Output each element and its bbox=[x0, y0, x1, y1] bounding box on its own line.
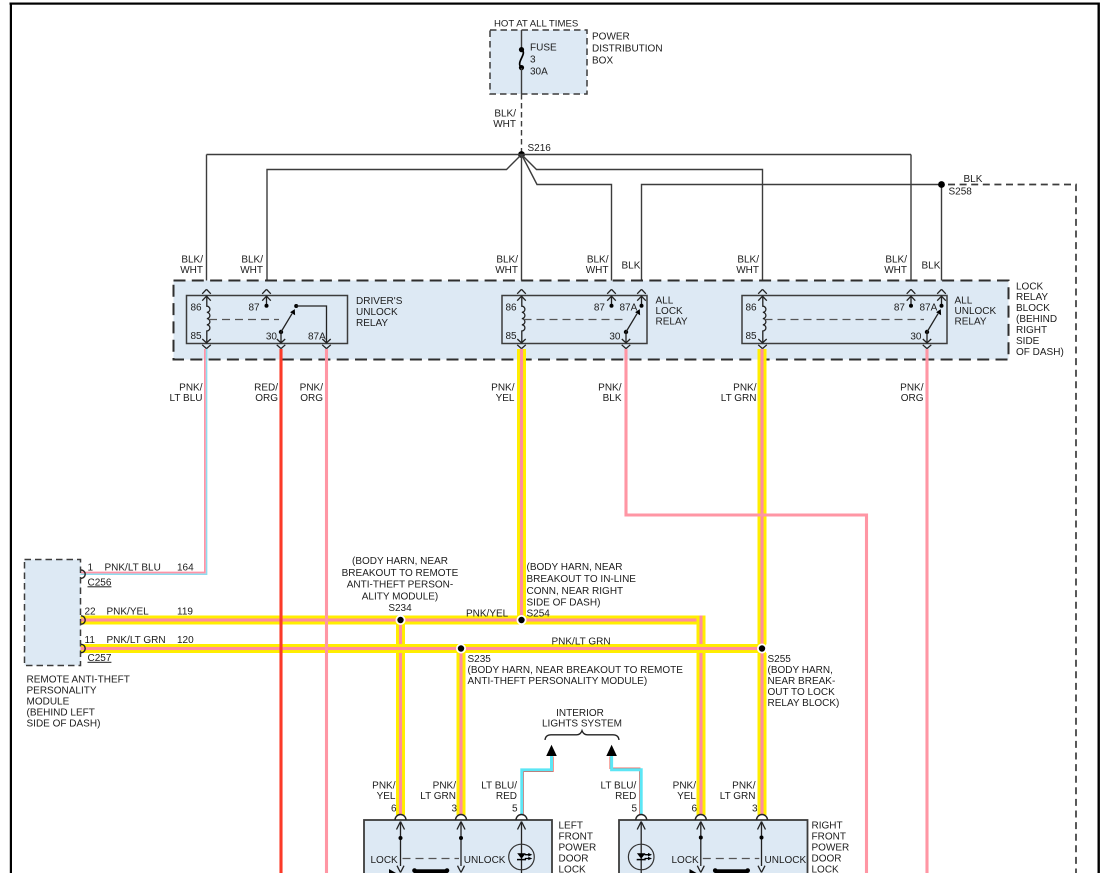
svg-text:30: 30 bbox=[910, 332, 922, 343]
svg-text:HOT AT ALL TIMES: HOT AT ALL TIMES bbox=[494, 19, 578, 30]
splice S258 bbox=[938, 181, 972, 197]
svg-text:S216: S216 bbox=[528, 143, 552, 154]
svg-text:ALITY MODULE): ALITY MODULE) bbox=[362, 591, 439, 602]
wire PNK/ORG left bbox=[325, 349, 328, 873]
svg-text:RIGHT: RIGHT bbox=[812, 821, 843, 832]
fuse F3 30A bbox=[519, 30, 557, 94]
pin 5 line bbox=[518, 822, 526, 830]
svg-text:POWER: POWER bbox=[559, 843, 597, 854]
splice S216 bbox=[518, 143, 551, 158]
right front power door lock bbox=[619, 815, 849, 873]
svg-text:PNK/: PNK/ bbox=[598, 382, 622, 393]
svg-text:5: 5 bbox=[631, 803, 637, 814]
connector arcs bbox=[636, 815, 647, 821]
connector pin 22 bbox=[81, 616, 85, 624]
LED lamp right bbox=[628, 844, 654, 870]
svg-text:1: 1 bbox=[88, 562, 94, 573]
svg-text:ORG: ORG bbox=[255, 393, 278, 404]
svg-text:86: 86 bbox=[191, 303, 203, 314]
svg-text:LIGHTS SYSTEM: LIGHTS SYSTEM bbox=[542, 719, 622, 730]
wire BLK/WHT to all lock 86 bbox=[521, 155, 523, 296]
svg-text:BLK/: BLK/ bbox=[241, 254, 263, 265]
svg-text:BLK/: BLK/ bbox=[494, 109, 516, 120]
svg-text:ORG: ORG bbox=[901, 393, 924, 404]
svg-text:BLK: BLK bbox=[603, 393, 622, 404]
coil K2 bbox=[522, 296, 525, 344]
svg-text:LT GRN: LT GRN bbox=[720, 791, 756, 802]
svg-text:WHT: WHT bbox=[736, 265, 759, 276]
LED lamp left bbox=[509, 844, 535, 870]
svg-text:86: 86 bbox=[746, 303, 758, 314]
svg-text:C256: C256 bbox=[88, 577, 112, 588]
wire to driver relay 86 bbox=[206, 155, 208, 296]
svg-text:FRONT: FRONT bbox=[812, 832, 846, 843]
svg-text:RED: RED bbox=[496, 791, 517, 802]
connector pin 11 bbox=[81, 644, 85, 652]
svg-text:BLK/: BLK/ bbox=[181, 254, 203, 265]
svg-text:LT BLU/: LT BLU/ bbox=[601, 780, 637, 791]
wire PNK/YEL drop to left door pin 6 bbox=[396, 620, 405, 815]
svg-text:RED: RED bbox=[615, 791, 636, 802]
svg-text:PNK/: PNK/ bbox=[733, 382, 757, 393]
svg-text:PNK/: PNK/ bbox=[732, 780, 756, 791]
svg-text:BREAKOUT TO IN-LINE: BREAKOUT TO IN-LINE bbox=[527, 574, 637, 585]
pin 5 line bbox=[637, 822, 645, 830]
svg-text:ALL: ALL bbox=[955, 296, 973, 307]
svg-text:6: 6 bbox=[391, 803, 397, 814]
svg-text:DOOR: DOOR bbox=[559, 854, 589, 865]
svg-text:87: 87 bbox=[894, 303, 906, 314]
svg-text:S234: S234 bbox=[388, 603, 412, 614]
svg-text:WHT: WHT bbox=[180, 265, 203, 276]
svg-text:PNK/YEL: PNK/YEL bbox=[466, 609, 509, 620]
svg-text:5: 5 bbox=[512, 803, 518, 814]
wire BLK 87A net bbox=[642, 174, 1077, 873]
svg-text:PNK/: PNK/ bbox=[372, 780, 396, 791]
svg-text:BLK/: BLK/ bbox=[737, 254, 759, 265]
pin 6 line bbox=[697, 822, 705, 830]
svg-text:3: 3 bbox=[530, 55, 536, 66]
wire BLK/WHT bus top bbox=[207, 155, 912, 296]
power distribution box bbox=[490, 19, 663, 95]
svg-text:86: 86 bbox=[506, 303, 518, 314]
splice S234 bbox=[342, 556, 459, 625]
svg-text:RELAY: RELAY bbox=[1016, 292, 1048, 303]
relay K2 all lock relay bbox=[502, 289, 688, 348]
svg-text:YEL: YEL bbox=[677, 791, 696, 802]
svg-text:30: 30 bbox=[609, 332, 621, 343]
svg-text:WHT: WHT bbox=[493, 119, 516, 130]
actuator fragments bottom bbox=[715, 869, 749, 873]
svg-text:87: 87 bbox=[594, 303, 606, 314]
svg-text:BREAKOUT TO REMOTE: BREAKOUT TO REMOTE bbox=[342, 568, 459, 579]
wire PNK/LT GRN bus horizontal bbox=[81, 349, 767, 815]
wire PNK/LT BLU bbox=[81, 349, 207, 574]
border right bbox=[1098, 3, 1100, 873]
svg-text:3: 3 bbox=[752, 803, 758, 814]
svg-text:WHT: WHT bbox=[240, 265, 263, 276]
svg-text:120: 120 bbox=[177, 635, 194, 646]
svg-text:UNLOCK: UNLOCK bbox=[955, 306, 997, 317]
svg-text:LT BLU/: LT BLU/ bbox=[481, 780, 517, 791]
brace bbox=[545, 731, 619, 740]
actuator fragments bottom bbox=[414, 869, 448, 873]
border top bbox=[10, 3, 1100, 5]
svg-text:RELAY: RELAY bbox=[356, 318, 388, 329]
svg-text:RED/: RED/ bbox=[254, 382, 278, 393]
svg-text:PNK/LT BLU: PNK/LT BLU bbox=[105, 562, 161, 573]
svg-text:PNK/YEL: PNK/YEL bbox=[107, 606, 150, 617]
wire to all unlock relay 87 bbox=[910, 155, 912, 296]
svg-text:PNK/: PNK/ bbox=[179, 382, 203, 393]
svg-text:PNK/LT GRN: PNK/LT GRN bbox=[107, 635, 166, 646]
dashed relay separator bbox=[209, 319, 279, 321]
svg-text:FRONT: FRONT bbox=[559, 832, 593, 843]
svg-text:RELAY: RELAY bbox=[955, 317, 987, 328]
arrow to interior lights right bbox=[606, 745, 617, 756]
svg-text:S255: S255 bbox=[768, 654, 792, 665]
svg-text:PNK/: PNK/ bbox=[673, 780, 697, 791]
svg-text:POWER: POWER bbox=[812, 843, 850, 854]
svg-text:LOCK: LOCK bbox=[1016, 281, 1044, 292]
svg-text:LT GRN: LT GRN bbox=[721, 393, 757, 404]
coil K3 bbox=[763, 296, 766, 344]
svg-text:RELAY: RELAY bbox=[656, 317, 688, 328]
svg-text:164: 164 bbox=[177, 562, 194, 573]
svg-text:85: 85 bbox=[191, 331, 203, 342]
module C256/C257 remote anti-theft personality module bbox=[25, 560, 195, 730]
svg-text:BLK/: BLK/ bbox=[885, 254, 907, 265]
arrow to interior lights left bbox=[546, 745, 557, 756]
pin 87A elbow bbox=[294, 304, 298, 308]
left front power door lock bbox=[364, 815, 596, 873]
wire PNK/YEL bus horizontal bbox=[81, 349, 706, 815]
svg-text:DOOR: DOOR bbox=[812, 854, 842, 865]
svg-text:BLK: BLK bbox=[922, 261, 941, 272]
svg-text:C257: C257 bbox=[88, 653, 112, 664]
svg-text:UNLOCK: UNLOCK bbox=[765, 855, 807, 866]
svg-text:ANTI-THEFT PERSONALITY MODULE): ANTI-THEFT PERSONALITY MODULE) bbox=[468, 676, 648, 687]
wire BLK/WHT fuse to S216 (dashed) bbox=[493, 94, 521, 154]
svg-text:(BEHIND: (BEHIND bbox=[1016, 314, 1057, 325]
dashed relay separator bbox=[765, 319, 925, 321]
svg-text:CONN, NEAR RIGHT: CONN, NEAR RIGHT bbox=[527, 586, 624, 597]
svg-text:BLK/: BLK/ bbox=[587, 254, 609, 265]
coil K1 bbox=[207, 296, 210, 344]
svg-text:BLK: BLK bbox=[622, 261, 641, 272]
svg-text:LT GRN: LT GRN bbox=[420, 791, 456, 802]
svg-text:RIGHT: RIGHT bbox=[1016, 325, 1047, 336]
wire RED/ORG bbox=[279, 349, 282, 873]
svg-text:BLOCK: BLOCK bbox=[1016, 303, 1050, 314]
svg-text:DISTRIBUTION: DISTRIBUTION bbox=[592, 44, 663, 55]
svg-text:S254: S254 bbox=[527, 609, 551, 620]
svg-text:85: 85 bbox=[746, 331, 758, 342]
svg-text:LT BLU: LT BLU bbox=[170, 393, 203, 404]
svg-text:(BODY HARN, NEAR BREAKOUT TO R: (BODY HARN, NEAR BREAKOUT TO REMOTE bbox=[468, 665, 684, 676]
svg-text:DRIVER'S: DRIVER'S bbox=[356, 296, 403, 307]
svg-text:22: 22 bbox=[85, 606, 97, 617]
wire BLK/WHT bus mid bbox=[267, 155, 763, 296]
svg-text:85: 85 bbox=[506, 331, 518, 342]
svg-text:INTERIOR: INTERIOR bbox=[556, 708, 604, 719]
svg-text:(BODY HARN, NEAR: (BODY HARN, NEAR bbox=[527, 562, 623, 573]
svg-text:6: 6 bbox=[691, 803, 697, 814]
svg-text:87: 87 bbox=[249, 303, 261, 314]
svg-text:UNLOCK: UNLOCK bbox=[464, 855, 506, 866]
svg-text:ORG: ORG bbox=[300, 393, 323, 404]
pin 6 line bbox=[397, 822, 405, 830]
svg-text:MODULE: MODULE bbox=[27, 696, 70, 707]
svg-text:87A: 87A bbox=[620, 303, 638, 314]
connector pin 1 bbox=[81, 570, 85, 578]
wire PNK/BLK bbox=[626, 349, 867, 873]
dashed relay separator bbox=[524, 319, 625, 321]
wire PNK/LT GRN vertical from all unlock 85 bbox=[758, 349, 767, 644]
svg-text:PNK/: PNK/ bbox=[900, 382, 924, 393]
svg-text:(BEHIND LEFT: (BEHIND LEFT bbox=[27, 707, 95, 718]
svg-text:REMOTE ANTI-THEFT: REMOTE ANTI-THEFT bbox=[27, 674, 130, 685]
wire labels below relay block bbox=[170, 382, 924, 404]
svg-text:FUSE: FUSE bbox=[530, 43, 557, 54]
svg-text:WHT: WHT bbox=[884, 265, 907, 276]
svg-text:30: 30 bbox=[266, 332, 278, 343]
border left bbox=[10, 3, 12, 873]
svg-text:YEL: YEL bbox=[377, 791, 396, 802]
svg-text:BOX: BOX bbox=[592, 56, 613, 67]
relay K1 driver's unlock relay bbox=[187, 289, 403, 348]
svg-text:LOCK: LOCK bbox=[812, 865, 840, 873]
splice S254 bbox=[517, 562, 637, 625]
svg-text:NEAR BREAK-: NEAR BREAK- bbox=[768, 676, 836, 687]
wire labels above door boxes bbox=[372, 780, 758, 814]
wire LT BLU/RED left bbox=[522, 756, 553, 815]
svg-text:SIDE OF DASH): SIDE OF DASH) bbox=[527, 598, 601, 609]
svg-text:PNK/: PNK/ bbox=[433, 780, 457, 791]
svg-text:LEFT: LEFT bbox=[559, 821, 583, 832]
svg-text:S235: S235 bbox=[468, 654, 492, 665]
svg-text:LOCK: LOCK bbox=[371, 855, 399, 866]
svg-text:30A: 30A bbox=[530, 67, 548, 78]
svg-text:PERSONALITY: PERSONALITY bbox=[27, 685, 97, 696]
svg-text:LOCK: LOCK bbox=[656, 306, 684, 317]
wire PNK/YEL vertical from all lock 85 bbox=[517, 349, 526, 620]
svg-text:(BODY HARN,: (BODY HARN, bbox=[768, 665, 833, 676]
interior lights system callout bbox=[542, 708, 622, 756]
wire LT BLU/RED right bbox=[610, 756, 641, 815]
svg-text:POWER: POWER bbox=[592, 32, 630, 43]
svg-text:SIDE: SIDE bbox=[1016, 336, 1040, 347]
svg-text:SIDE OF DASH): SIDE OF DASH) bbox=[27, 718, 101, 729]
svg-text:WHT: WHT bbox=[495, 265, 518, 276]
svg-text:S258: S258 bbox=[949, 187, 973, 198]
svg-text:ANTI-THEFT PERSON-: ANTI-THEFT PERSON- bbox=[347, 580, 453, 591]
svg-text:UNLOCK: UNLOCK bbox=[356, 307, 398, 318]
svg-text:119: 119 bbox=[177, 606, 193, 617]
svg-text:BLK/: BLK/ bbox=[496, 254, 518, 265]
svg-text:3: 3 bbox=[451, 803, 457, 814]
lock relay block bbox=[174, 281, 1064, 360]
svg-text:11: 11 bbox=[85, 635, 96, 646]
svg-text:ALL: ALL bbox=[656, 296, 674, 307]
svg-text:WHT: WHT bbox=[586, 265, 609, 276]
svg-text:BLK: BLK bbox=[964, 174, 983, 185]
svg-text:PNK/: PNK/ bbox=[300, 382, 324, 393]
svg-text:OUT TO LOCK: OUT TO LOCK bbox=[768, 687, 836, 698]
svg-text:YEL: YEL bbox=[496, 393, 515, 404]
connector arcs bbox=[395, 815, 406, 821]
splice S235 bbox=[456, 644, 683, 687]
wire PNK/ORG right bbox=[925, 349, 928, 873]
wire PNK/LT GRN drop to right door pin 3 bbox=[758, 653, 767, 815]
svg-text:PNK/LT GRN: PNK/LT GRN bbox=[552, 637, 611, 648]
wire BLK/WHT to all lock 87 bbox=[522, 155, 612, 296]
svg-text:87A: 87A bbox=[920, 303, 938, 314]
svg-text:PNK/: PNK/ bbox=[491, 382, 515, 393]
svg-text:(BODY HARN, NEAR: (BODY HARN, NEAR bbox=[352, 556, 448, 567]
wire labels above relay block bbox=[180, 254, 941, 276]
wire PNK/YEL drop to right door pin 6 bbox=[697, 616, 706, 816]
pin 3 line bbox=[457, 822, 465, 830]
pin 3 line bbox=[758, 822, 766, 830]
wire PNK/LT GRN drop to left door pin 3 bbox=[457, 653, 466, 815]
svg-text:LOCK: LOCK bbox=[672, 855, 700, 866]
svg-text:LOCK: LOCK bbox=[559, 865, 587, 873]
svg-text:RELAY BLOCK): RELAY BLOCK) bbox=[768, 698, 840, 709]
svg-text:OF DASH): OF DASH) bbox=[1016, 347, 1064, 358]
splice S255 bbox=[757, 644, 839, 709]
relay K3 all unlock relay bbox=[742, 289, 997, 348]
